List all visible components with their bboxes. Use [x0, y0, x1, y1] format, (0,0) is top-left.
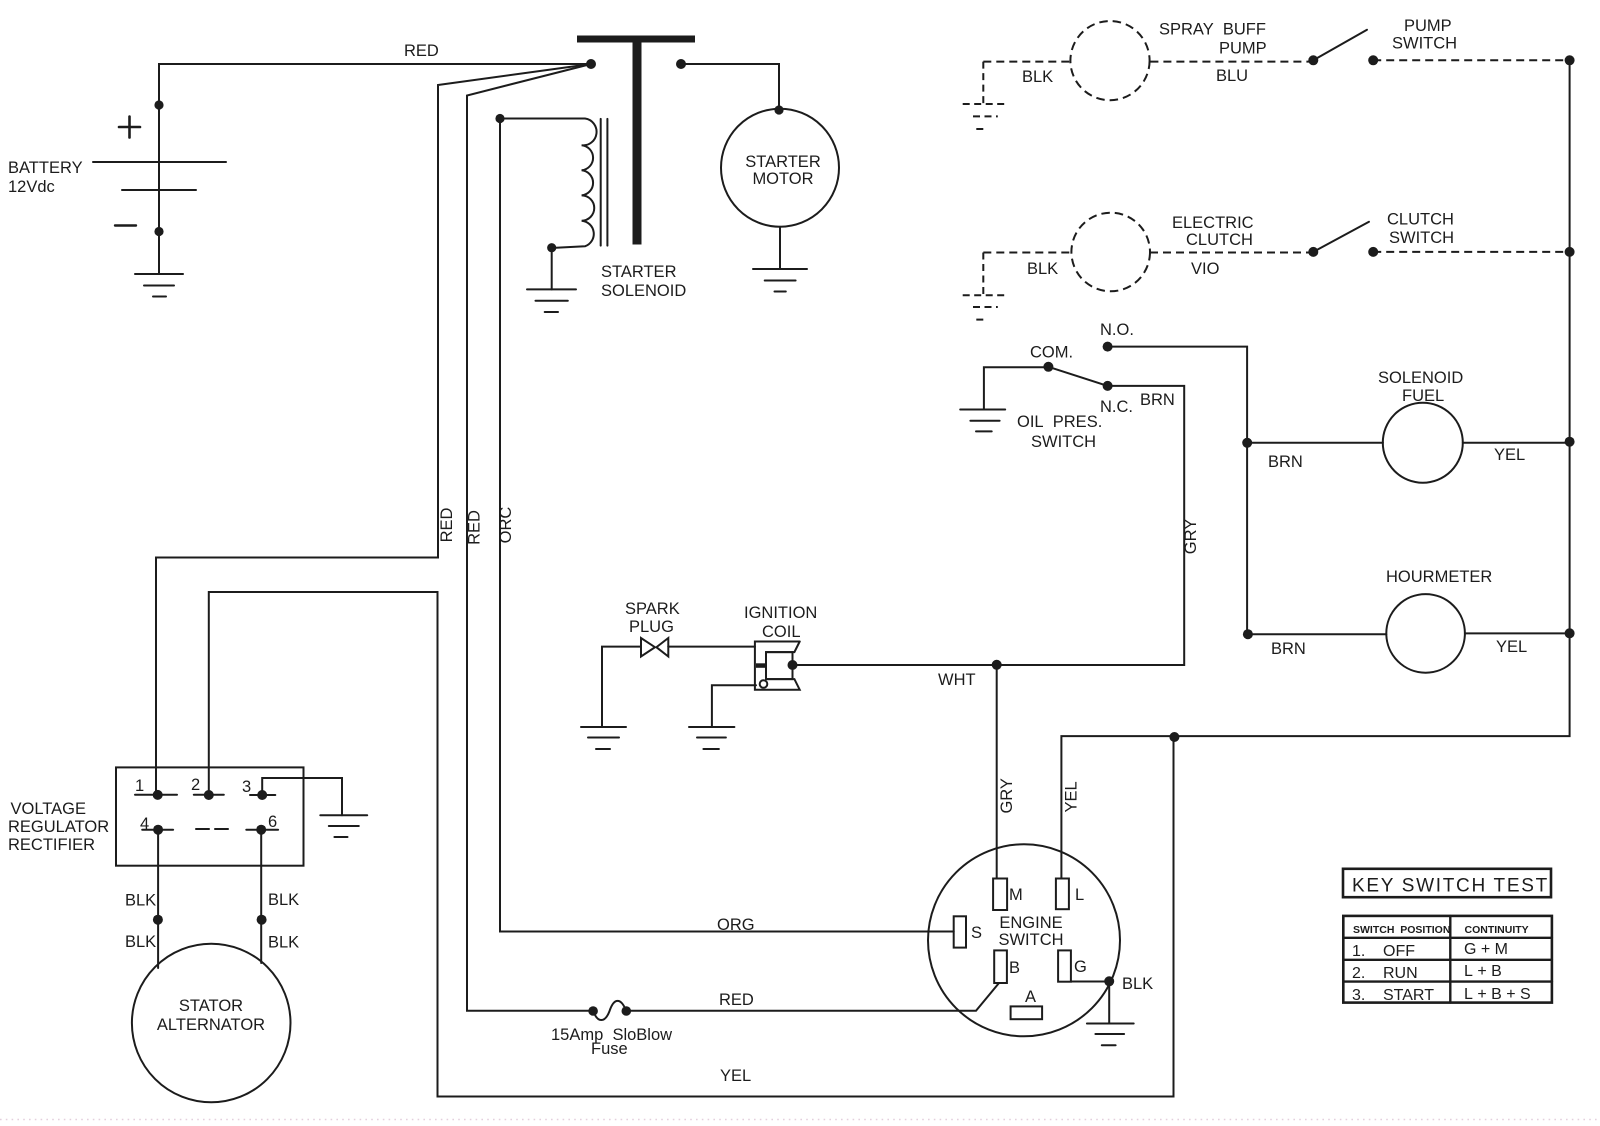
wire pin 4 to stator — [157, 830, 159, 968]
wire N.O. to solenoid fuel / hourmeter (BRN) — [1108, 347, 1248, 635]
stator alternator G1 — [132, 944, 291, 1103]
wire solenoid to starter motor — [681, 64, 779, 109]
hourmeter HM1 — [1386, 594, 1465, 673]
node YEL rail junction — [1169, 732, 1179, 742]
battery BT1 12Vdc — [93, 117, 226, 226]
wire solenoid terminal to regulator pin 1 (RED) — [156, 64, 591, 795]
svg-text:HOURMETER: HOURMETER — [1386, 568, 1492, 586]
svg-text:COIL: COIL — [762, 623, 801, 641]
node battery negative — [154, 227, 163, 236]
key switch test title box — [1343, 869, 1551, 897]
svg-text:CLUTCH: CLUTCH — [1387, 211, 1454, 229]
wire BRN junction to solenoid fuel — [1247, 442, 1383, 444]
svg-text:RECTIFIER: RECTIFIER — [8, 836, 95, 854]
wire clutch to switch (VIO dashed) — [1150, 252, 1313, 254]
node bus clutch row — [1565, 247, 1575, 257]
svg-text:BRN: BRN — [1140, 391, 1175, 409]
ground spray buff pump (dashed) — [963, 62, 1008, 129]
starter motor M1 — [721, 109, 839, 227]
solenoid fuel SOL1 — [1383, 403, 1463, 483]
wire spark plug to ignition coil — [668, 646, 755, 648]
svg-text:RED: RED — [404, 42, 439, 60]
svg-text:YEL: YEL — [1496, 638, 1527, 656]
svg-text:BLK: BLK — [1027, 260, 1058, 278]
svg-text:ENGINE: ENGINE — [999, 914, 1062, 932]
svg-text:STATOR: STATOR — [179, 997, 243, 1015]
ground electric clutch (dashed) — [963, 253, 1008, 320]
electric clutch (dashed circle) — [1071, 213, 1150, 292]
node bus hourmeter row — [1565, 628, 1575, 638]
wire pump to switch (BLU dashed) — [1150, 61, 1313, 63]
svg-text:YEL: YEL — [720, 1067, 751, 1085]
ground oil pressure switch — [960, 410, 1005, 432]
svg-text:BLK: BLK — [125, 933, 156, 951]
starter solenoid contact bar — [577, 36, 695, 245]
svg-text:A: A — [1025, 988, 1036, 1006]
node bus top — [1565, 55, 1575, 65]
svg-text:2: 2 — [191, 776, 200, 794]
clutch switch S2 — [1308, 222, 1378, 257]
svg-text:M: M — [1009, 886, 1023, 904]
svg-text:WHT: WHT — [938, 671, 976, 689]
wire solenoid coil to ground — [551, 248, 553, 290]
pin 2 — [191, 776, 224, 800]
svg-text:G + M: G + M — [1464, 941, 1508, 958]
terminal B — [994, 950, 1007, 983]
svg-text:N.C.: N.C. — [1100, 398, 1133, 416]
svg-text:FUEL: FUEL — [1402, 387, 1444, 405]
wire regulator pin 2 to YEL rail — [209, 592, 1174, 1097]
ground starter motor — [753, 269, 807, 292]
svg-text:SOLENOID: SOLENOID — [601, 282, 686, 300]
node BLK left — [153, 915, 163, 925]
svg-text:SWITCH: SWITCH — [998, 931, 1063, 949]
svg-text:1.: 1. — [1352, 943, 1365, 960]
node WHT junction — [992, 660, 1002, 670]
svg-text:6: 6 — [268, 813, 277, 831]
svg-text:SWITCH: SWITCH — [1392, 35, 1457, 53]
svg-text:REGULATOR: REGULATOR — [8, 818, 109, 836]
svg-text:CLUTCH: CLUTCH — [1186, 231, 1253, 249]
svg-text:BLK: BLK — [268, 891, 299, 909]
node solenoid coil top — [495, 114, 504, 123]
ground spark plug — [581, 727, 626, 749]
ground solenoid coil — [527, 289, 576, 312]
svg-text:N.O.: N.O. — [1100, 321, 1134, 339]
wire oil pressure switch common to ground — [984, 367, 1049, 409]
node BLK ground — [1104, 976, 1114, 986]
svg-text:12Vdc: 12Vdc — [8, 178, 55, 196]
svg-text:PUMP: PUMP — [1404, 17, 1452, 35]
terminal A — [1011, 1006, 1043, 1019]
svg-text:VIO: VIO — [1191, 260, 1220, 278]
node solenoid battery terminal — [586, 59, 596, 69]
node battery positive — [154, 100, 163, 109]
wire right bus vertical — [1061, 60, 1569, 878]
node BRN junction — [1242, 438, 1252, 448]
svg-text:SWITCH: SWITCH — [1389, 229, 1454, 247]
terminal S — [954, 916, 966, 947]
svg-text:COM.: COM. — [1030, 344, 1073, 362]
wire ignition coil primary to ground — [712, 685, 756, 727]
wire starter motor to ground — [779, 227, 781, 269]
svg-text:RED: RED — [466, 510, 484, 545]
svg-text:START: START — [1383, 987, 1434, 1004]
svg-text:Fuse: Fuse — [591, 1040, 628, 1058]
solenoid coil core lines — [601, 119, 608, 246]
spark plug gap symbol — [641, 638, 668, 657]
svg-text:RED: RED — [438, 508, 456, 543]
svg-text:STARTER: STARTER — [601, 263, 677, 281]
svg-text:ELECTRIC: ELECTRIC — [1172, 214, 1254, 232]
svg-text:SPRAY BUFF: SPRAY BUFF — [1159, 21, 1266, 39]
node starter motor terminal — [774, 105, 783, 114]
svg-text:1: 1 — [135, 777, 144, 795]
svg-text:CONTINUITY: CONTINUITY — [1465, 924, 1529, 936]
svg-text:S: S — [971, 924, 982, 942]
key switch test table — [1343, 916, 1552, 1003]
solenoid coil L1 — [500, 119, 597, 248]
svg-text:BLK: BLK — [1022, 68, 1053, 86]
wire hourmeter to bus (YEL) — [1465, 632, 1570, 634]
wire pin 3 to ground — [262, 778, 342, 815]
svg-text:3: 3 — [242, 778, 251, 796]
svg-text:G: G — [1074, 958, 1087, 976]
svg-text:YEL: YEL — [1062, 781, 1080, 812]
svg-text:BLK: BLK — [1122, 975, 1153, 993]
wire battery negative to ground — [158, 162, 160, 274]
ground ignition coil — [689, 727, 734, 749]
svg-text:GRY: GRY — [998, 778, 1016, 813]
ground regulator — [320, 815, 367, 837]
svg-text:BATTERY: BATTERY — [8, 159, 83, 177]
svg-text:PLUG: PLUG — [629, 618, 674, 636]
svg-text:BLK: BLK — [268, 934, 299, 952]
terminal L — [1056, 879, 1069, 910]
terminal M — [993, 879, 1007, 911]
svg-text:L + B: L + B — [1464, 963, 1502, 980]
wire engine switch G to ground (BLK) — [1071, 982, 1109, 1024]
ground engine switch — [1087, 1024, 1134, 1046]
svg-text:ORC: ORC — [497, 507, 515, 544]
pump switch S1 — [1308, 30, 1378, 66]
node hourmeter left — [1243, 629, 1253, 639]
ignition coil T1 — [755, 642, 800, 690]
wire solenoid coil control (ORC) to engine switch S — [500, 119, 954, 932]
wire pin 6 to stator — [260, 830, 262, 963]
svg-text:BLK: BLK — [125, 892, 156, 910]
wire spark plug left lead — [602, 647, 640, 727]
svg-text:SWITCH: SWITCH — [1031, 433, 1096, 451]
wire ignition coil to N.C. (WHT/GRY) — [793, 386, 1185, 665]
pin 1 — [135, 777, 177, 800]
node solenoid coil bottom — [547, 243, 556, 252]
svg-text:VOLTAGE: VOLTAGE — [11, 800, 87, 818]
node bus fuel row — [1565, 437, 1575, 447]
svg-text:BRN: BRN — [1268, 453, 1303, 471]
svg-text:B: B — [1009, 959, 1020, 977]
node BLK right — [257, 915, 267, 925]
svg-text:BRN: BRN — [1271, 640, 1306, 658]
pin 6 — [246, 813, 278, 835]
svg-text:L: L — [1075, 886, 1084, 904]
wire solenoid fuel to bus (YEL) — [1463, 442, 1570, 444]
wire BRN to hourmeter — [1248, 633, 1386, 635]
svg-text:IGNITION: IGNITION — [744, 604, 817, 622]
wire WHT junction to engine switch M (GRY) — [996, 665, 998, 879]
svg-text:OFF: OFF — [1383, 943, 1415, 960]
node solenoid motor terminal — [676, 59, 686, 69]
wire ground to spray buff pump (BLK dashed) — [983, 61, 1070, 63]
engine switch SW1 — [928, 844, 1120, 1036]
oil pressure switch S3 blade — [1043, 342, 1112, 391]
svg-text:YEL: YEL — [1494, 446, 1525, 464]
pin 4 — [140, 815, 173, 835]
wire pump switch to bus (dashed) — [1373, 59, 1569, 61]
svg-text:BLU: BLU — [1216, 67, 1248, 85]
svg-text:OIL PRES.: OIL PRES. — [1017, 413, 1102, 431]
fuse F1 15Amp SloBlow — [588, 1001, 631, 1020]
svg-text:RED: RED — [719, 991, 754, 1009]
svg-text:ALTERNATOR: ALTERNATOR — [157, 1016, 265, 1034]
svg-text:SWITCH POSITION: SWITCH POSITION — [1353, 924, 1450, 936]
svg-text:MOTOR: MOTOR — [752, 170, 813, 188]
svg-text:GRY: GRY — [1182, 519, 1200, 554]
svg-text:RUN: RUN — [1383, 965, 1418, 982]
voltage regulator rectifier VR1 — [116, 767, 304, 865]
wire ground to electric clutch (BLK dashed) — [983, 252, 1071, 254]
svg-text:PUMP: PUMP — [1219, 40, 1267, 58]
pin 3 — [242, 778, 275, 800]
svg-text:KEY SWITCH TEST: KEY SWITCH TEST — [1352, 876, 1549, 897]
svg-text:ORG: ORG — [717, 916, 755, 934]
wire battery positive to solenoid terminal (RED) — [159, 64, 591, 162]
svg-text:SPARK: SPARK — [625, 600, 680, 618]
svg-text:STARTER: STARTER — [745, 153, 821, 171]
dash between pin 4 and 6 — [196, 828, 228, 830]
wire fuse to engine switch B (RED) — [625, 983, 999, 1011]
ground battery — [135, 274, 183, 297]
node ignition coil output — [788, 660, 798, 670]
scan artifact dotted line — [0, 1119, 1600, 1121]
svg-text:L + B + S: L + B + S — [1464, 986, 1531, 1003]
wire clutch switch to bus (dashed) — [1373, 251, 1569, 253]
spray buff pump motor (dashed circle) — [1070, 21, 1149, 100]
svg-text:SOLENOID: SOLENOID — [1378, 369, 1463, 387]
wire solenoid terminal to fuse (RED) — [467, 64, 593, 1011]
svg-text:2.: 2. — [1352, 965, 1365, 982]
terminal G — [1058, 950, 1071, 981]
svg-text:3.: 3. — [1352, 987, 1365, 1004]
